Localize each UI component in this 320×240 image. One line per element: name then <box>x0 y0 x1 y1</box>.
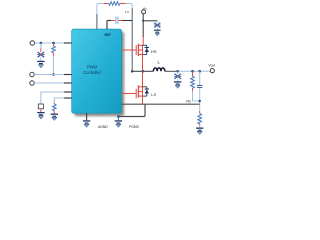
wire LS gate <box>122 93 137 95</box>
capacitor C1 <box>37 43 44 61</box>
ground PGND <box>115 117 122 128</box>
node dot R1 tap <box>52 42 55 45</box>
resistor R2 (box style) <box>38 104 43 112</box>
svg-text:Vout: Vout <box>208 64 215 68</box>
node dot PGND <box>117 115 120 118</box>
svg-text:Lx: Lx <box>125 10 129 14</box>
wire BST pin stub <box>107 21 111 30</box>
wire LS source down <box>142 96 144 104</box>
node dot Cff tap <box>198 70 201 73</box>
resistor R1 <box>52 43 56 75</box>
terminal T1 <box>30 41 34 45</box>
svg-text:HS: HS <box>151 49 157 54</box>
svg-text:LS: LS <box>151 92 156 97</box>
wire Vout rail <box>165 70 178 72</box>
ground AGND <box>83 120 90 127</box>
transistor Q2 LS <box>136 85 142 98</box>
wire U1 pin4 down-left <box>41 92 72 104</box>
inductor L1 <box>153 68 164 71</box>
ground under R3 <box>51 114 58 121</box>
node dot Cin tap <box>142 20 144 22</box>
wire to Cin <box>143 20 157 22</box>
resistor R6 feedback bottom <box>198 111 202 128</box>
terminal T3 <box>30 81 34 85</box>
wire U1 pin5 down-left <box>54 98 71 103</box>
resistor R4 bootstrap <box>104 2 126 6</box>
wire HS gate <box>122 49 137 51</box>
resistor R3 <box>53 103 57 114</box>
wire Lx vertical <box>131 8 133 71</box>
terminal Vin <box>142 10 146 14</box>
op-amp U1 PWM Controller body <box>72 29 122 113</box>
wire HS source to SW <box>142 55 144 72</box>
node dot C1 tap <box>40 42 43 45</box>
diode D1 body of HS <box>143 45 150 54</box>
node dot FB junction <box>199 100 201 102</box>
wire T2 to U1 pin <box>34 74 71 76</box>
resistor R5 feedback top <box>191 71 195 101</box>
wire R4 to Lx vertical <box>126 4 133 9</box>
node dot R1 to wire2 <box>52 73 55 76</box>
node dot Rfb1 tap <box>191 70 194 73</box>
ground under R2 <box>37 112 44 119</box>
svg-text:PGND: PGND <box>129 125 139 129</box>
capacitor C3 input <box>154 21 161 28</box>
IC U1 shadow <box>74 32 124 117</box>
capacitor C2 bootstrap <box>111 17 132 25</box>
node dot SW center <box>142 70 145 73</box>
wire T1 to U1 pin <box>35 42 72 44</box>
svg-text:PWM: PWM <box>87 65 98 70</box>
svg-text:Controller: Controller <box>83 70 101 75</box>
node dot SW left <box>131 70 134 73</box>
svg-text:BST: BST <box>105 33 111 37</box>
terminal T2 <box>30 72 34 76</box>
svg-text:FB: FB <box>186 100 191 104</box>
wire T3 to U1 pin <box>34 82 71 84</box>
diode D2 body of LS <box>143 87 150 96</box>
node SW line <box>132 70 153 72</box>
ground under C1 <box>37 61 44 68</box>
wire PGND step <box>118 104 145 116</box>
capacitor C5 feedforward <box>197 71 202 111</box>
terminal Vout <box>210 69 214 73</box>
wire LS drain from SW <box>142 71 144 86</box>
ground under R6 <box>196 128 203 135</box>
wire divider jog <box>193 100 200 102</box>
wire FB line <box>122 103 200 105</box>
svg-text:AGND: AGND <box>98 125 108 129</box>
transistor Q1 HS <box>136 44 142 56</box>
ground under C4 <box>174 81 181 88</box>
node dot Cout tap <box>176 70 179 73</box>
ground under C3 <box>154 28 161 36</box>
capacitor C4 output <box>174 71 181 81</box>
wire AGND stub <box>86 113 88 120</box>
wire BST loop left vertical <box>97 4 104 30</box>
wire Vin down <box>142 14 144 46</box>
